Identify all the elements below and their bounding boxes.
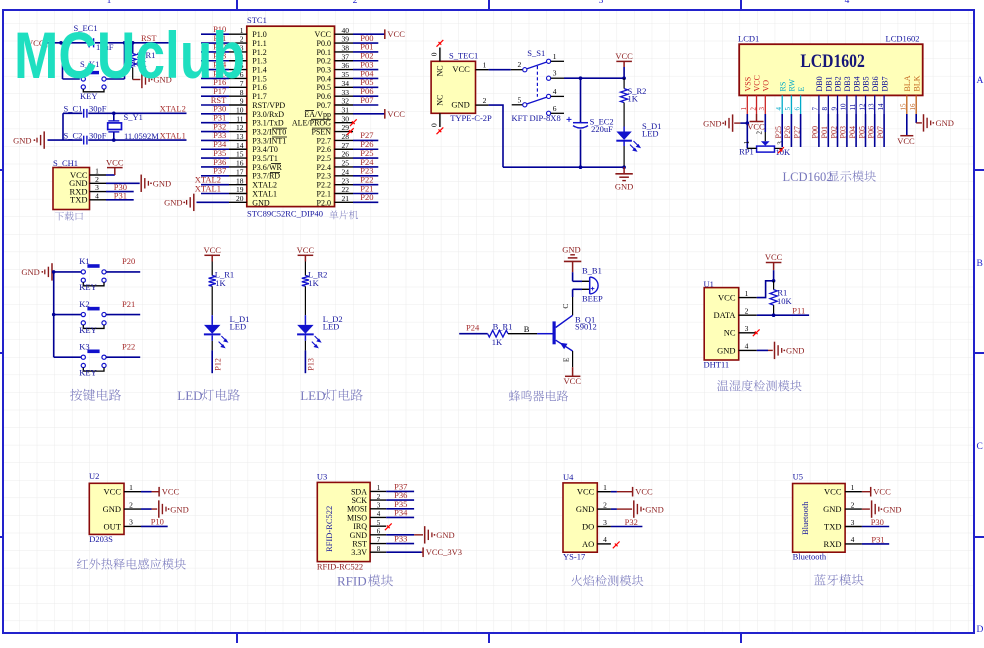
svg-text:2: 2 bbox=[756, 131, 764, 135]
svg-text:P1.4: P1.4 bbox=[252, 66, 266, 75]
svg-text:U3: U3 bbox=[317, 471, 327, 481]
svg-text:P1.3: P1.3 bbox=[252, 57, 266, 66]
resistor R1 10K bbox=[770, 281, 793, 315]
caption 温湿度检测模块 bbox=[717, 380, 802, 391]
wire key rail bbox=[52, 270, 56, 357]
ground (LCD BLK) bbox=[916, 114, 954, 132]
svg-text:U4: U4 bbox=[563, 472, 574, 482]
svg-text:11: 11 bbox=[849, 103, 857, 110]
IC STC1 STC89C52RC_DIP40 bbox=[229, 15, 353, 218]
svg-text:GND: GND bbox=[451, 99, 469, 109]
net label P25 (MCU pin 26) bbox=[353, 148, 378, 158]
svg-text:KFT DIP-8X8: KFT DIP-8X8 bbox=[512, 113, 561, 123]
svg-text:4: 4 bbox=[775, 107, 783, 111]
svg-text:P0.6: P0.6 bbox=[317, 92, 331, 101]
svg-text:KEY: KEY bbox=[79, 325, 96, 335]
svg-text:VCC: VCC bbox=[577, 487, 595, 497]
svg-text:BLK: BLK bbox=[912, 75, 921, 91]
net label P13 (MCU pin 4) bbox=[201, 51, 229, 61]
IC U3 RFID-RC522 bbox=[317, 471, 386, 571]
svg-text:14: 14 bbox=[877, 103, 885, 111]
svg-text:P34: P34 bbox=[394, 508, 408, 518]
svg-text:P13: P13 bbox=[307, 358, 316, 370]
svg-text:GND: GND bbox=[576, 504, 594, 514]
svg-text:A: A bbox=[977, 76, 984, 86]
svg-text:MISO: MISO bbox=[347, 513, 367, 522]
svg-text:P01: P01 bbox=[820, 126, 829, 138]
svg-text:STC1: STC1 bbox=[247, 15, 267, 25]
svg-text:GND: GND bbox=[645, 504, 663, 514]
svg-text:P22: P22 bbox=[122, 342, 135, 352]
svg-text:MOSI: MOSI bbox=[347, 505, 367, 514]
svg-text:15: 15 bbox=[900, 103, 908, 111]
svg-text:P30: P30 bbox=[871, 517, 884, 527]
svg-text:VCC: VCC bbox=[897, 136, 915, 146]
svg-text:P31: P31 bbox=[114, 190, 127, 200]
ground (S_D1) bbox=[615, 167, 633, 191]
svg-text:RFID: RFID bbox=[337, 573, 367, 588]
svg-text:DB6: DB6 bbox=[871, 76, 880, 91]
svg-text:XTAL2: XTAL2 bbox=[160, 103, 186, 113]
net label RST (MCU pin 9) bbox=[201, 95, 229, 105]
power port VCC (MCU pin 31 EA) bbox=[353, 109, 405, 119]
wire + net label P11 bbox=[757, 305, 809, 317]
svg-text:1: 1 bbox=[107, 0, 112, 6]
crystal S_Y1 11.0592M bbox=[108, 112, 160, 141]
svg-text:12: 12 bbox=[858, 103, 866, 111]
svg-text:11: 11 bbox=[236, 114, 243, 123]
svg-text:6: 6 bbox=[553, 104, 557, 113]
svg-text:BEEP: BEEP bbox=[582, 294, 603, 304]
power port VCC (LCD BLA) bbox=[897, 114, 915, 146]
svg-text:AO: AO bbox=[582, 539, 594, 549]
svg-text:33: 33 bbox=[342, 88, 350, 97]
net label P01 (MCU pin 38) bbox=[353, 42, 378, 52]
svg-text:GND: GND bbox=[350, 531, 368, 540]
svg-text:VCC: VCC bbox=[452, 64, 470, 74]
no-ERC marker (U4 AO) bbox=[613, 542, 620, 549]
svg-text:RS: RS bbox=[778, 82, 787, 92]
net label P06 (LCD pin 13) bbox=[867, 114, 876, 147]
svg-text:RFID-RC522: RFID-RC522 bbox=[317, 562, 363, 572]
svg-text:PSEN: PSEN bbox=[311, 127, 331, 136]
svg-text:10: 10 bbox=[840, 103, 848, 111]
svg-text:20: 20 bbox=[236, 194, 244, 203]
svg-text:GND: GND bbox=[170, 504, 188, 514]
caption LCD1602显示模块 bbox=[783, 170, 876, 184]
svg-text:5: 5 bbox=[518, 95, 522, 104]
ground (U5) bbox=[862, 500, 902, 517]
svg-text:30pF: 30pF bbox=[89, 103, 107, 113]
svg-text:2: 2 bbox=[518, 60, 522, 69]
net label P21 bbox=[106, 299, 140, 315]
svg-text:ALE/PROG: ALE/PROG bbox=[292, 119, 331, 128]
svg-text:4: 4 bbox=[553, 87, 557, 96]
net label P24 (MCU pin 25) bbox=[353, 157, 378, 167]
no-ERC marker (pin 30 ALE) bbox=[350, 119, 357, 126]
svg-text:P04: P04 bbox=[848, 126, 857, 138]
wire VSS to gnd bbox=[740, 114, 756, 148]
svg-text:RFID-RC522: RFID-RC522 bbox=[324, 506, 334, 552]
svg-text:P1.5: P1.5 bbox=[252, 74, 266, 83]
svg-text:XTAL1: XTAL1 bbox=[160, 131, 186, 141]
svg-text:VCC: VCC bbox=[824, 487, 842, 497]
net label P23 (MCU pin 24) bbox=[353, 166, 378, 176]
svg-text:37: 37 bbox=[342, 52, 350, 61]
net label P33 bbox=[386, 534, 414, 544]
key K3 bbox=[54, 342, 106, 378]
svg-text:P06: P06 bbox=[867, 126, 876, 138]
net label P35 (MCU pin 15) bbox=[201, 148, 229, 158]
svg-text:8: 8 bbox=[821, 107, 829, 111]
svg-text:P0.0: P0.0 bbox=[317, 39, 331, 48]
svg-text:P20: P20 bbox=[360, 192, 373, 202]
net label P07 (LCD pin 14) bbox=[876, 114, 885, 147]
svg-text:VCC: VCC bbox=[718, 293, 736, 303]
svg-text:P2.0: P2.0 bbox=[317, 198, 331, 207]
svg-text:4: 4 bbox=[377, 510, 381, 518]
svg-text:VCC: VCC bbox=[564, 376, 582, 386]
no-ERC marker (U3 IRQ) bbox=[385, 523, 392, 530]
net label P32 bbox=[611, 517, 643, 527]
power port VCC (buzzer) bbox=[564, 351, 582, 386]
no-ERC marker (RP1 pin3) bbox=[778, 147, 784, 153]
svg-text:P0.2: P0.2 bbox=[317, 57, 331, 66]
svg-text:P25: P25 bbox=[774, 126, 783, 138]
net label P10 (MCU pin 1) bbox=[201, 24, 229, 34]
net label P20 bbox=[106, 256, 140, 272]
svg-text:4: 4 bbox=[603, 535, 607, 544]
svg-text:LED: LED bbox=[323, 321, 340, 331]
svg-text:NC: NC bbox=[436, 65, 445, 76]
caption 蓝牙模块 bbox=[814, 574, 863, 586]
svg-text:3: 3 bbox=[745, 324, 749, 333]
wire XTAL1 bbox=[48, 138, 187, 142]
net label P32 (MCU pin 12) bbox=[201, 121, 229, 131]
svg-text:21: 21 bbox=[342, 194, 350, 203]
svg-text:VCC: VCC bbox=[747, 121, 765, 131]
key K2 bbox=[54, 299, 106, 335]
svg-text:40: 40 bbox=[342, 26, 350, 35]
net label P17 (MCU pin 8) bbox=[201, 86, 229, 96]
caption LED灯电路 (1) bbox=[177, 388, 240, 403]
svg-text:29: 29 bbox=[342, 123, 350, 132]
net label P15 (MCU pin 6) bbox=[201, 68, 229, 78]
net label P02 (MCU pin 37) bbox=[353, 51, 378, 61]
transistor B_Q1 S9012 bbox=[537, 304, 597, 363]
svg-text:19: 19 bbox=[236, 185, 244, 194]
svg-text:P3.6/WR: P3.6/WR bbox=[252, 163, 282, 172]
power port VCC (reset) bbox=[27, 38, 46, 48]
svg-text:S_TEC1: S_TEC1 bbox=[449, 50, 478, 60]
net label P22 bbox=[106, 342, 140, 358]
svg-text:LCD1602: LCD1602 bbox=[800, 52, 865, 72]
svg-text:1K: 1K bbox=[628, 94, 639, 104]
svg-text:DB4: DB4 bbox=[852, 76, 861, 91]
net label XTAL2 (MCU pin 18) bbox=[195, 174, 229, 184]
net label P26 (LCD pin 5) bbox=[783, 114, 792, 147]
connector S_CH1 (download port) bbox=[53, 158, 106, 210]
svg-text:4: 4 bbox=[851, 535, 855, 544]
svg-text:E: E bbox=[797, 87, 806, 92]
svg-text:MCUclub: MCUclub bbox=[14, 18, 245, 92]
caption 蜂鸣器电路 bbox=[509, 390, 568, 401]
svg-text:KEY: KEY bbox=[79, 368, 96, 378]
svg-text:RST/VPD: RST/VPD bbox=[252, 101, 285, 110]
svg-text:GND: GND bbox=[252, 198, 270, 207]
svg-text:1: 1 bbox=[603, 483, 607, 492]
caption 火焰检测模块 bbox=[571, 575, 643, 586]
svg-text:GND: GND bbox=[13, 135, 31, 145]
net label P31 (MCU pin 11) bbox=[201, 113, 229, 123]
svg-text:YS-17: YS-17 bbox=[563, 551, 585, 561]
svg-text:18: 18 bbox=[236, 176, 244, 185]
svg-text:P05: P05 bbox=[857, 126, 866, 138]
power port VCC (S_S1) bbox=[615, 51, 633, 78]
svg-text:3: 3 bbox=[851, 518, 855, 527]
IC U4 YS-17 bbox=[563, 472, 611, 562]
svg-text:GND: GND bbox=[615, 182, 633, 192]
svg-text:4: 4 bbox=[845, 0, 850, 6]
net label P21 (MCU pin 22) bbox=[353, 183, 378, 193]
net label P02 (LCD pin 9) bbox=[829, 114, 838, 147]
svg-text:1: 1 bbox=[851, 483, 855, 492]
svg-text:B_B1: B_B1 bbox=[582, 265, 602, 275]
svg-text:P0.1: P0.1 bbox=[317, 48, 331, 57]
svg-text:P10: P10 bbox=[151, 516, 164, 526]
net label P30 (S_CH1) bbox=[106, 182, 134, 192]
svg-text:VCC: VCC bbox=[106, 158, 124, 168]
svg-text:GND: GND bbox=[786, 346, 804, 356]
svg-text:P27: P27 bbox=[792, 126, 801, 138]
svg-text:P11: P11 bbox=[792, 305, 805, 315]
svg-text:3: 3 bbox=[377, 501, 381, 509]
svg-text:S_Y1: S_Y1 bbox=[124, 112, 143, 122]
net label P05 (MCU pin 34) bbox=[353, 77, 378, 87]
svg-text:17: 17 bbox=[236, 167, 244, 176]
pin 0 top (no-ERC) bbox=[430, 40, 444, 61]
resistor S_R2 1K bbox=[621, 78, 647, 126]
net label P37 (MCU pin 17) bbox=[201, 166, 229, 176]
svg-text:LCD1602: LCD1602 bbox=[886, 33, 920, 43]
net label P04 (MCU pin 35) bbox=[353, 68, 378, 78]
svg-text:SCK: SCK bbox=[351, 496, 367, 505]
svg-text:P1.6: P1.6 bbox=[252, 83, 266, 92]
svg-text:KEY: KEY bbox=[80, 91, 97, 101]
svg-text:6: 6 bbox=[377, 528, 381, 536]
svg-text:P1.2: P1.2 bbox=[252, 48, 266, 57]
svg-text:23: 23 bbox=[342, 176, 350, 185]
svg-text:9: 9 bbox=[240, 97, 244, 106]
svg-text:GND: GND bbox=[562, 245, 580, 255]
svg-text:S_S1: S_S1 bbox=[527, 48, 545, 58]
svg-text:S_C1: S_C1 bbox=[64, 103, 83, 113]
svg-text:STC89C52RC_DIP40: STC89C52RC_DIP40 bbox=[247, 209, 323, 219]
resistor L_R1 1K bbox=[209, 270, 235, 288]
svg-text:2: 2 bbox=[749, 107, 757, 111]
svg-text:P0.3: P0.3 bbox=[317, 66, 331, 75]
svg-text:32: 32 bbox=[342, 97, 350, 106]
svg-text:P3.3/INT1: P3.3/INT1 bbox=[252, 136, 286, 145]
svg-text:39: 39 bbox=[342, 35, 350, 44]
svg-text:P03: P03 bbox=[839, 126, 848, 138]
svg-text:0: 0 bbox=[430, 123, 439, 127]
svg-text:30: 30 bbox=[342, 114, 350, 123]
svg-text:1: 1 bbox=[740, 107, 748, 111]
svg-text:RXD: RXD bbox=[824, 539, 842, 549]
net label P31 (S_CH1) bbox=[106, 190, 134, 200]
svg-text:10: 10 bbox=[236, 105, 244, 114]
svg-text:30pF: 30pF bbox=[89, 131, 107, 141]
net label P30 (MCU pin 10) bbox=[201, 104, 229, 114]
svg-text:TXD: TXD bbox=[70, 195, 87, 205]
svg-text:DB7: DB7 bbox=[880, 76, 889, 91]
svg-text:DATA: DATA bbox=[714, 310, 737, 320]
svg-text:TXD: TXD bbox=[824, 521, 841, 531]
svg-text:1: 1 bbox=[377, 484, 381, 492]
svg-text:GND: GND bbox=[436, 530, 454, 540]
net label P00 (MCU pin 39) bbox=[353, 33, 378, 43]
svg-text:13: 13 bbox=[236, 132, 244, 141]
wire TYPEC pin1 to switch bbox=[489, 69, 511, 71]
svg-text:24: 24 bbox=[342, 167, 350, 176]
wire VCC to DHT pin1 bbox=[757, 279, 776, 298]
svg-text:GND: GND bbox=[164, 197, 182, 207]
power port VCC (LCD pin2) bbox=[747, 114, 765, 131]
svg-text:LED: LED bbox=[177, 388, 202, 403]
svg-text:LCD1602: LCD1602 bbox=[783, 170, 833, 184]
svg-text:DB0: DB0 bbox=[815, 76, 824, 91]
svg-text:2: 2 bbox=[745, 307, 749, 316]
net label P26 (MCU pin 27) bbox=[353, 139, 378, 149]
svg-text:P0.5: P0.5 bbox=[317, 83, 331, 92]
svg-text:B: B bbox=[524, 324, 530, 334]
buzzer B_B1 BEEP bbox=[582, 265, 603, 303]
svg-text:VCC: VCC bbox=[315, 30, 331, 39]
svg-text:VCC: VCC bbox=[104, 487, 122, 497]
svg-text:LED: LED bbox=[642, 128, 659, 138]
power port VCC (U4) bbox=[611, 487, 653, 497]
svg-text:P21: P21 bbox=[122, 299, 135, 309]
svg-text:2: 2 bbox=[377, 493, 381, 501]
svg-text:6: 6 bbox=[793, 107, 801, 111]
svg-text:2: 2 bbox=[603, 500, 607, 509]
svg-text:36: 36 bbox=[342, 61, 350, 70]
svg-text:DB2: DB2 bbox=[834, 76, 843, 91]
no-ERC marker (pin 29 PSEN) bbox=[347, 128, 354, 135]
svg-text:P2.4: P2.4 bbox=[317, 163, 331, 172]
svg-text:P3.2/INT0: P3.2/INT0 bbox=[252, 127, 286, 136]
svg-text:P07: P07 bbox=[360, 95, 373, 105]
LED L_D2 bbox=[297, 314, 343, 347]
svg-text:7: 7 bbox=[812, 107, 820, 111]
svg-text:GND: GND bbox=[717, 345, 735, 355]
capacitor S_EC1 10uF bbox=[74, 23, 114, 52]
svg-text:P2.3: P2.3 bbox=[317, 172, 331, 181]
svg-text:IRQ: IRQ bbox=[353, 522, 367, 531]
svg-text:15: 15 bbox=[236, 150, 244, 159]
svg-text:P31: P31 bbox=[871, 534, 884, 544]
svg-text:S9012: S9012 bbox=[575, 322, 597, 332]
key S_K1 bbox=[63, 43, 125, 101]
svg-text:4: 4 bbox=[745, 342, 749, 351]
switch S_S1 KFT DIP-8X8 bbox=[511, 48, 564, 123]
svg-text:E: E bbox=[561, 357, 570, 362]
svg-text:GND: GND bbox=[936, 118, 954, 128]
svg-text:VCC: VCC bbox=[203, 245, 221, 255]
svg-text:38: 38 bbox=[342, 44, 350, 53]
svg-text:DB1: DB1 bbox=[825, 76, 834, 91]
net label P37 bbox=[386, 482, 414, 492]
svg-text:P0.7: P0.7 bbox=[317, 101, 331, 110]
svg-text:10K: 10K bbox=[777, 296, 793, 306]
net label P03 (LCD pin 10) bbox=[839, 114, 848, 147]
net label XTAL1 (MCU pin 19) bbox=[195, 183, 229, 193]
svg-text:DO: DO bbox=[582, 521, 594, 531]
IC U1 DHT11 bbox=[704, 279, 757, 370]
svg-text:LCD1: LCD1 bbox=[738, 33, 759, 43]
caption 按键电路 bbox=[70, 389, 121, 401]
caption 红外热释电感应模块 bbox=[77, 558, 186, 569]
capacitor S_C2 30pF bbox=[64, 131, 107, 145]
svg-text:25: 25 bbox=[342, 159, 350, 168]
net label P03 (MCU pin 36) bbox=[353, 59, 378, 69]
svg-text:1: 1 bbox=[129, 483, 133, 492]
net label P05 (LCD pin 12) bbox=[857, 114, 866, 147]
svg-text:VO: VO bbox=[762, 80, 771, 92]
capacitor S_EC2 220uF bbox=[567, 78, 614, 167]
svg-text:P00: P00 bbox=[811, 126, 820, 138]
svg-text:1: 1 bbox=[553, 52, 557, 61]
svg-text:VCC: VCC bbox=[765, 252, 783, 262]
power port VCC (LED1) bbox=[203, 245, 221, 276]
svg-text:XTAL2: XTAL2 bbox=[252, 181, 277, 190]
net label P25 (LCD pin 4) bbox=[774, 114, 783, 147]
svg-text:2: 2 bbox=[483, 96, 487, 105]
pin 0 bottom (no-ERC) bbox=[430, 113, 444, 134]
svg-text:LED: LED bbox=[230, 321, 247, 331]
svg-text:P3.4/T0: P3.4/T0 bbox=[252, 145, 278, 154]
net label P36 bbox=[386, 490, 414, 500]
net label P34 bbox=[386, 508, 414, 518]
svg-text:DB3: DB3 bbox=[843, 76, 852, 91]
ground (U3) bbox=[386, 526, 454, 543]
net label P30 (U5) bbox=[862, 517, 889, 527]
resistor L_R2 1K bbox=[302, 270, 328, 288]
power port VCC (U5) bbox=[862, 487, 891, 497]
ground (reset) bbox=[133, 71, 172, 88]
net label P10 bbox=[141, 516, 168, 526]
svg-text:B_R1: B_R1 bbox=[493, 322, 513, 332]
net label P24 bbox=[459, 322, 487, 333]
ground (keys) bbox=[21, 263, 52, 280]
svg-text:3: 3 bbox=[129, 518, 133, 527]
wire + net label P12 bbox=[212, 335, 222, 373]
key K1 bbox=[54, 256, 106, 292]
svg-text:P1.1: P1.1 bbox=[252, 39, 266, 48]
wire TYPEC pin2 to gnd rail bbox=[489, 105, 503, 167]
svg-text:22: 22 bbox=[342, 185, 350, 194]
wire bbox=[304, 286, 306, 315]
svg-text:DB5: DB5 bbox=[862, 76, 871, 91]
svg-text:0: 0 bbox=[430, 52, 439, 56]
svg-text:34: 34 bbox=[342, 79, 350, 88]
svg-text:C: C bbox=[561, 304, 570, 309]
svg-text:TYPE-C-2P: TYPE-C-2P bbox=[450, 113, 492, 123]
caption LED灯电路 (2) bbox=[300, 388, 363, 403]
svg-text:P3.5/T1: P3.5/T1 bbox=[252, 154, 278, 163]
svg-text:S_C2: S_C2 bbox=[64, 131, 83, 141]
